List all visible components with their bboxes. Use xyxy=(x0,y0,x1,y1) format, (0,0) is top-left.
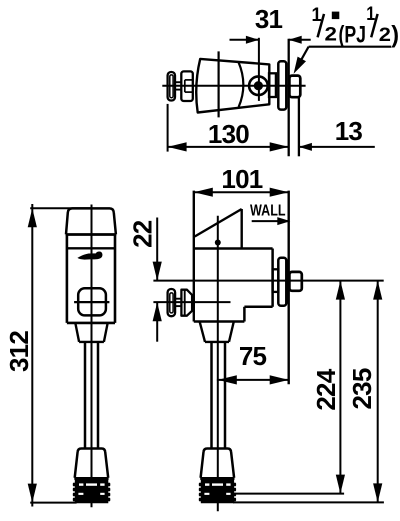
svg-text:2: 2 xyxy=(379,25,391,46)
svg-text:235: 235 xyxy=(347,368,377,409)
svg-text:2: 2 xyxy=(325,24,338,45)
svg-text:31: 31 xyxy=(255,4,283,34)
svg-text:224: 224 xyxy=(311,368,341,410)
svg-text:130: 130 xyxy=(208,119,249,149)
svg-text:13: 13 xyxy=(335,116,363,146)
svg-text:): ) xyxy=(391,21,399,48)
svg-text:WALL: WALL xyxy=(250,203,286,220)
svg-text:312: 312 xyxy=(4,331,34,372)
svg-text:22: 22 xyxy=(128,220,158,248)
svg-text:101: 101 xyxy=(221,164,262,194)
svg-text:(PJ: (PJ xyxy=(339,21,367,48)
svg-text:75: 75 xyxy=(239,341,267,371)
